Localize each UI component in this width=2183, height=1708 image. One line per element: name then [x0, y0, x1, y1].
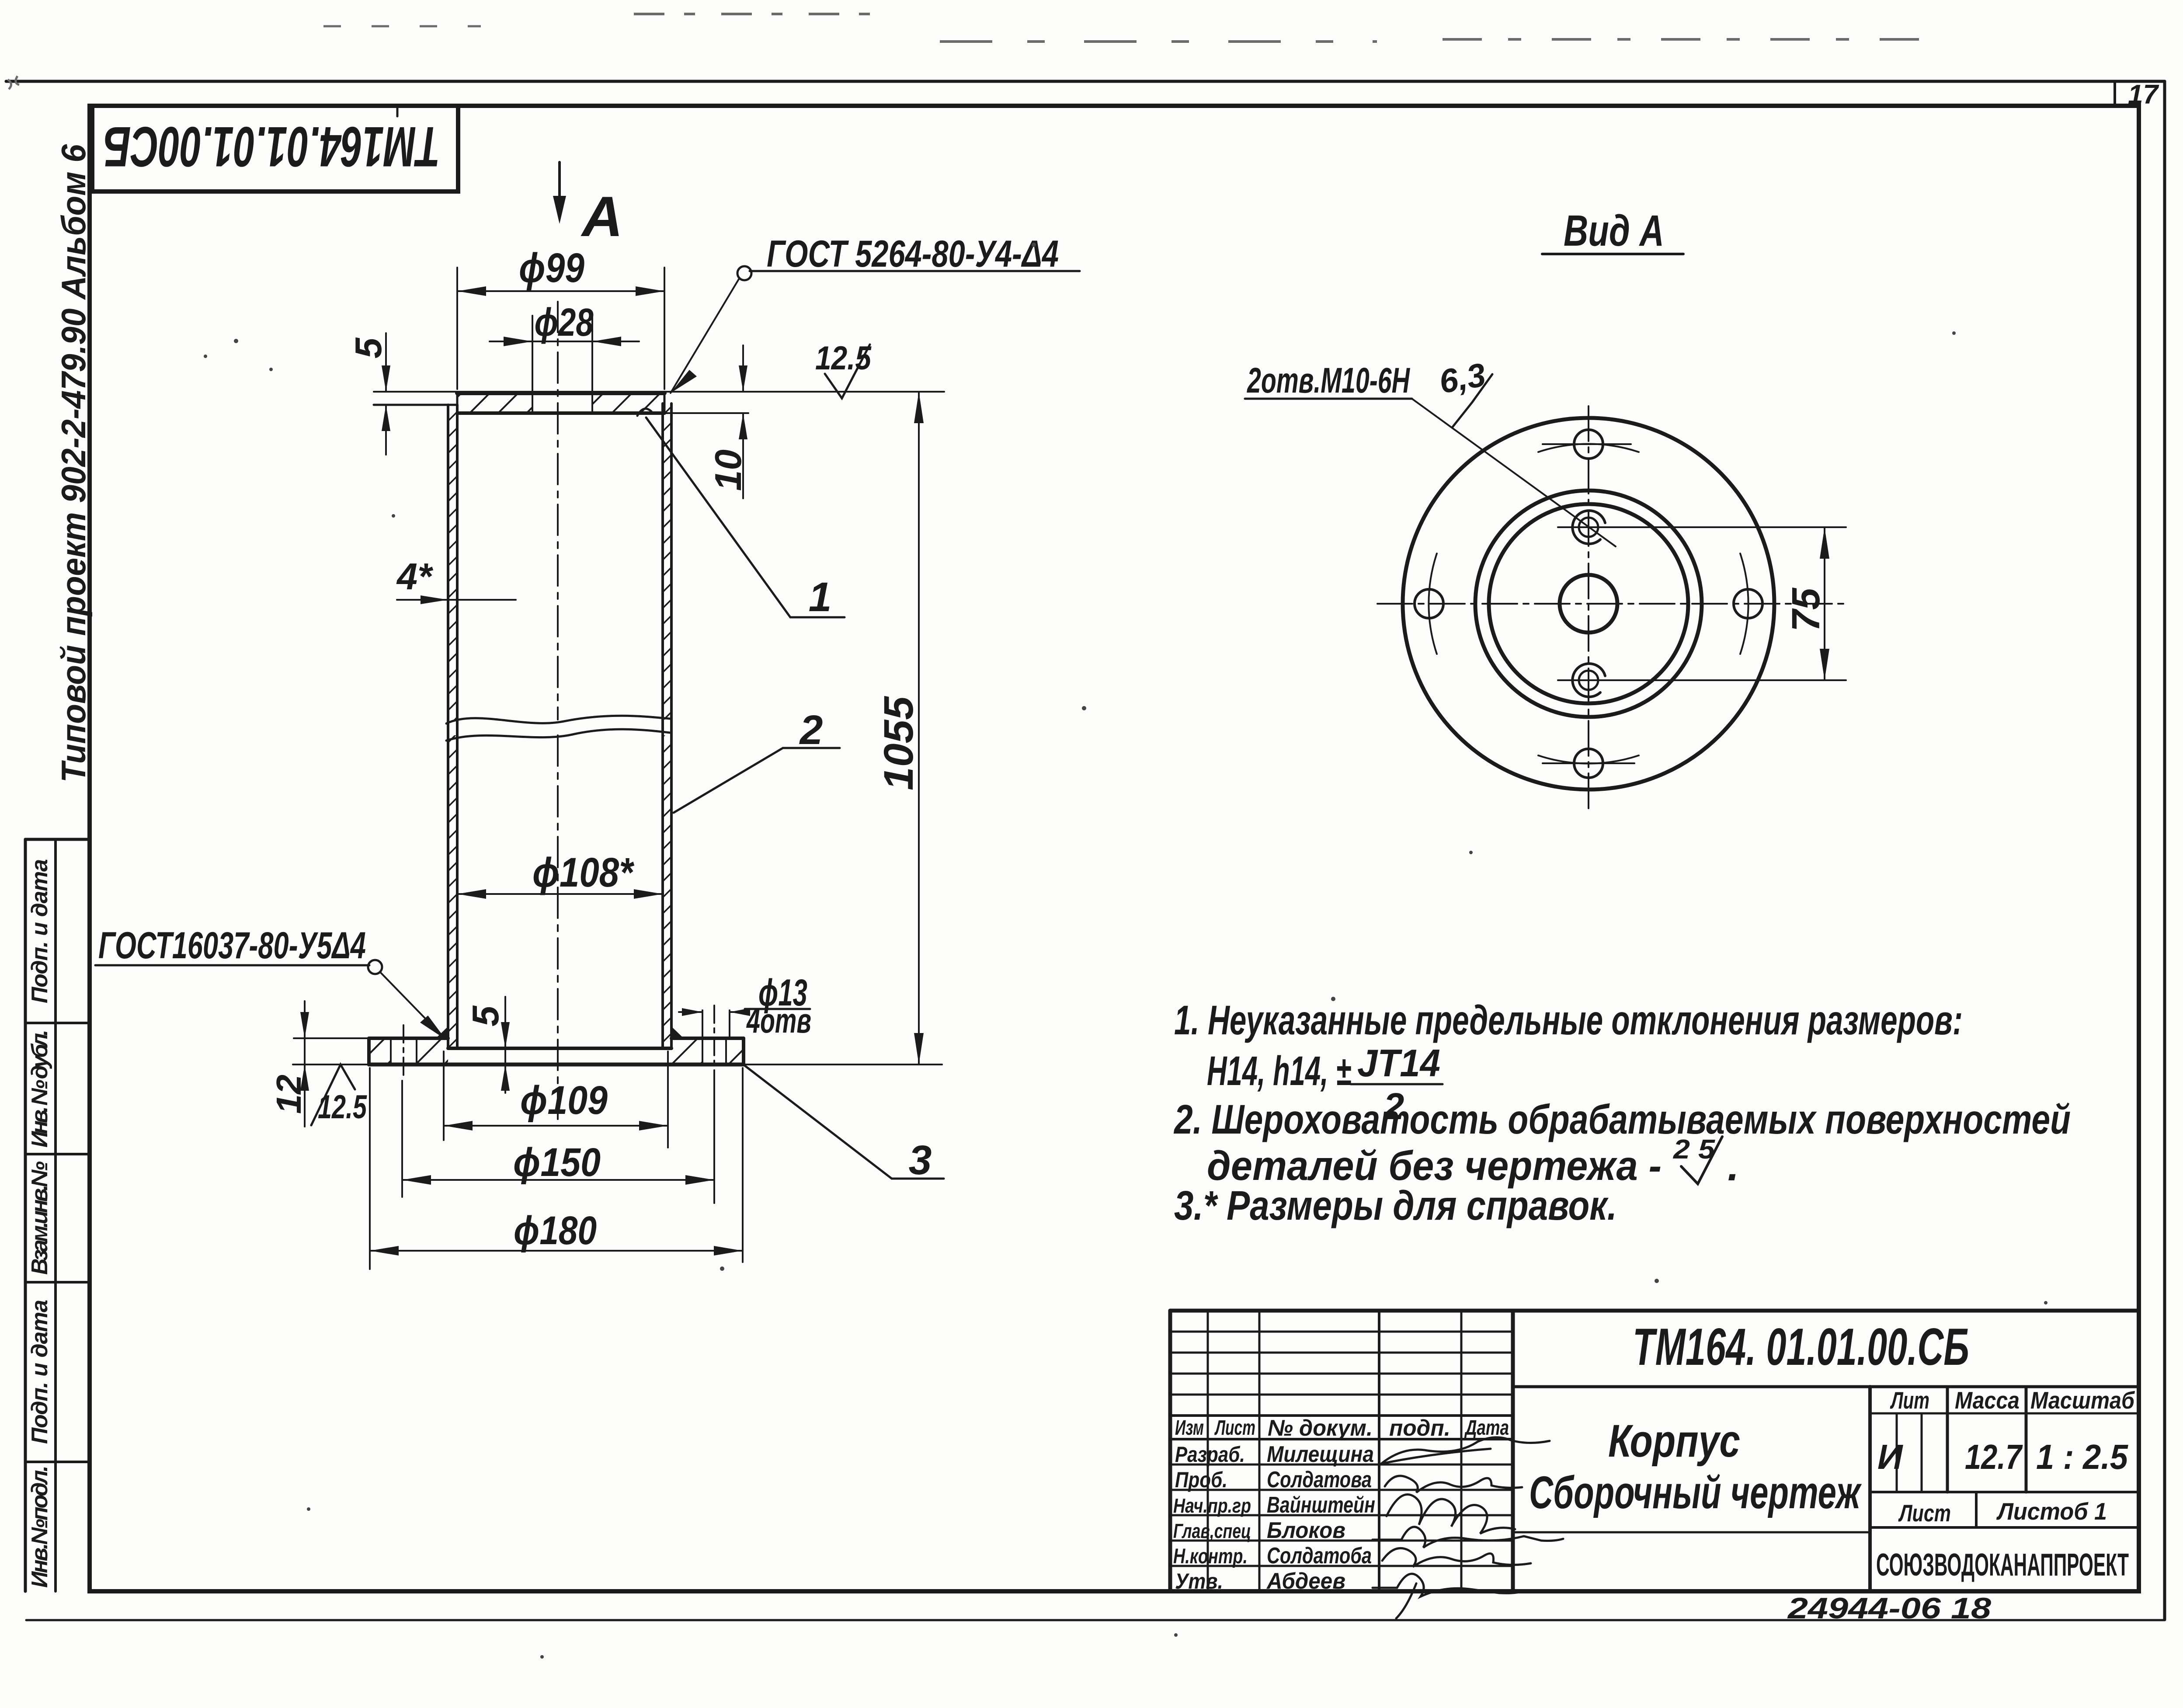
svg-text:подп.: подп.	[1389, 1416, 1450, 1441]
dim10 upper line	[742, 345, 744, 392]
flange bolt hole right centerline	[713, 1005, 715, 1176]
tapped hole top thread arc	[1572, 511, 1605, 544]
title block column podp-data divider	[1460, 1311, 1463, 1591]
artifact mark left edge	[8, 76, 19, 89]
dia13 dimension line left	[679, 1011, 702, 1013]
svg-text:Глав,спец: Глав,спец	[1173, 1520, 1251, 1542]
dia28 extension line right	[591, 316, 593, 392]
title block bottom border	[1170, 1590, 2139, 1593]
arrowhead dia28 left	[504, 337, 532, 346]
gost5264 leader line	[671, 278, 739, 393]
boss inner circle	[1489, 504, 1688, 703]
svg-text:1 : 2.5: 1 : 2.5	[2036, 1437, 2128, 1476]
arrowhead dim1055 up	[914, 392, 924, 423]
arrowhead dia150 left	[402, 1175, 431, 1185]
signatures	[1373, 1437, 1563, 1618]
note roughness check	[1681, 1137, 1722, 1184]
svg-text:1. Неуказанные предельные от: 1. Неуказанные предельные отклонения раз…	[1174, 997, 1963, 1044]
signature razrab	[1381, 1437, 1550, 1464]
dim12 line	[304, 1001, 306, 1127]
bolt hole bottom crossline	[1543, 762, 1634, 764]
boss outer circle	[1475, 490, 1702, 717]
signature utv	[1373, 1574, 1526, 1618]
cap top edge	[457, 391, 664, 395]
dim75 extension line bottom	[1558, 679, 1846, 681]
title block lit table left divider	[1868, 1387, 1872, 1591]
flange bottom extension line right	[744, 1064, 942, 1065]
right wall inner line	[661, 404, 664, 1048]
bolt circle arc top	[1538, 444, 1639, 452]
dim10 lower line	[742, 413, 744, 498]
flange bottom extension line left	[293, 1064, 369, 1065]
center hole circle	[1560, 575, 1617, 633]
svg-text:Вид А: Вид А	[1564, 206, 1664, 255]
dia109 dimension line	[444, 1125, 668, 1127]
sheet outer bottom border line	[26, 1619, 2165, 1621]
bolt hole top crossline	[1543, 443, 1631, 445]
flange left edge	[367, 1038, 371, 1064]
title block lit sub divider 2	[1921, 1413, 1923, 1492]
flange hatch block 3	[671, 1038, 702, 1064]
arrowhead dia108 left	[457, 889, 486, 899]
svg-text:Подп. и дата: Подп. и дата	[27, 859, 52, 1003]
dia13 extension line right	[729, 1010, 730, 1037]
dim1055 line	[918, 392, 920, 1064]
vertical centerline	[1588, 406, 1589, 809]
arrowhead dia13 left	[682, 1008, 702, 1016]
svg-text:3: 3	[909, 1137, 932, 1183]
weld curl at cap right	[637, 409, 651, 416]
dia99 extension line left	[456, 268, 458, 389]
dia109 extension line left	[443, 1051, 445, 1140]
svg-text:5: 5	[465, 1005, 507, 1026]
svg-text:10: 10	[708, 449, 749, 491]
svg-text:Масса: Масса	[1955, 1387, 2020, 1414]
leader 2otv underline	[1245, 398, 1412, 400]
svg-text:Вайнштейн: Вайнштейн	[1267, 1492, 1375, 1518]
callout 1 leader	[646, 417, 845, 617]
gost16037 underline	[95, 964, 369, 967]
arrowhead dia28 right	[592, 337, 621, 346]
svg-text:Лист: Лист	[1214, 1416, 1255, 1440]
svg-text:12: 12	[269, 1075, 308, 1114]
svg-text:6,3: 6,3	[1436, 356, 1488, 401]
svg-text:Корпус: Корпус	[1608, 1416, 1740, 1467]
flange hatch block 4	[726, 1038, 744, 1064]
svg-text:ТМ164.01.01.00СБ: ТМ164.01.01.00СБ	[104, 115, 440, 179]
title block header top line	[1170, 1414, 1513, 1417]
svg-text:Абдеев: Абдеев	[1266, 1569, 1345, 1594]
svg-text:ϕ28: ϕ28	[535, 301, 594, 344]
title block list row bottom line	[1870, 1526, 2139, 1529]
svg-text:3.* Размеры для справок.: 3.* Размеры для справок.	[1174, 1183, 1617, 1229]
svg-text:Типовой проект 902-2-479.90: Типовой проект 902-2-479.90 Альбом 6	[54, 144, 93, 783]
title block name row line 3	[1170, 1514, 1513, 1517]
stamp box tick	[396, 106, 399, 116]
signature nkontr	[1382, 1548, 1531, 1567]
title block small row line 2	[1170, 1352, 1513, 1354]
gost5264 leader underline	[750, 270, 1080, 272]
signature nachprgr	[1387, 1495, 1515, 1534]
cap bottom extension line right	[664, 412, 748, 414]
left column cell border 3	[25, 1153, 90, 1155]
artifact dashes top 1	[634, 13, 879, 15]
break wavy line lower	[446, 729, 670, 741]
svg-text:Нач.пр.гр: Нач.пр.гр	[1173, 1494, 1251, 1517]
title block column izm-list divider	[1207, 1311, 1209, 1591]
roughness 12.5 check top	[825, 344, 870, 398]
svg-text:12.5: 12.5	[815, 340, 872, 377]
left column cell border 2	[25, 1022, 90, 1024]
left wall hatch upper	[448, 405, 457, 720]
svg-text:Н.контр.: Н.контр.	[1173, 1545, 1248, 1568]
title block left border	[1168, 1311, 1172, 1591]
sheet outer top border line	[6, 80, 2165, 83]
arrowhead dia13 right	[730, 1008, 750, 1016]
svg-text:Сборочный чертеж: Сборочный чертеж	[1529, 1467, 1862, 1518]
left column cell border 1	[25, 838, 90, 841]
arrowhead dim1055 down	[914, 1033, 924, 1064]
svg-text:4отв: 4отв	[746, 1001, 811, 1040]
weld fillet right	[671, 1026, 684, 1038]
roughness 6.3 check	[1452, 374, 1492, 428]
flange right edge	[742, 1038, 745, 1064]
title block lit-massa divider	[1946, 1387, 1949, 1492]
dim5 top upper line	[385, 333, 387, 392]
title block column ndokum-podp divider	[1378, 1311, 1380, 1591]
svg-text:12.7: 12.7	[1965, 1437, 2023, 1476]
page number cell divider	[2113, 83, 2116, 106]
tapped hole bottom thread arc	[1572, 664, 1605, 697]
flange outer circle	[1403, 418, 1774, 790]
right wall hatch upper	[663, 404, 671, 720]
dia150 extension line right	[713, 1081, 715, 1203]
arrowhead dim10 down	[739, 365, 747, 392]
arrowhead dim12 up	[300, 1064, 309, 1091]
arrowhead dim5bot up	[501, 1064, 510, 1091]
right wall hatch lower	[663, 735, 671, 1048]
svg-text:СОЮЗВОДОКАНАППРОЕКТ: СОЮЗВОДОКАНАППРОЕКТ	[1876, 1548, 2129, 1583]
svg-text:Масштаб: Масштаб	[2030, 1387, 2135, 1414]
left wall hatch lower	[448, 735, 457, 1048]
svg-text:Разраб.: Разраб.	[1175, 1442, 1245, 1467]
artifact dashes top 2	[940, 40, 1377, 43]
arrowhead dia108 right	[634, 889, 663, 899]
title block big cell left divider	[1511, 1311, 1515, 1591]
svg-text:Блоков: Блоков	[1267, 1518, 1345, 1543]
signature glavspec	[1373, 1527, 1563, 1548]
svg-text:№ докум.: № докум.	[1268, 1416, 1373, 1441]
title block name row line 5	[1170, 1565, 1513, 1567]
dia108 dimension line	[457, 893, 663, 895]
dia99 extension line right	[664, 268, 665, 389]
flange bolt hole left centerline	[403, 1025, 404, 1079]
left wall outer line	[447, 405, 449, 1048]
leader 2otv line	[1412, 399, 1616, 546]
arrowhead A view	[553, 196, 566, 224]
dia180 extension line right	[742, 1068, 744, 1262]
svg-text:12.5: 12.5	[318, 1089, 367, 1126]
cap hatched right band	[592, 392, 664, 413]
svg-text:Подп. и дата: Подп. и дата	[27, 1300, 52, 1444]
title block name row line 2	[1170, 1489, 1513, 1491]
flange bolt hole left edge a	[390, 1038, 392, 1064]
flange bottom line	[369, 1063, 744, 1067]
flange bolt hole left edge b	[416, 1038, 417, 1064]
title block list row top line	[1870, 1491, 2139, 1493]
arrowhead gost16037	[420, 1016, 446, 1040]
top-left stamp box	[92, 106, 458, 191]
arrowhead dia109 right	[639, 1121, 668, 1131]
arrowhead gost5264	[671, 370, 697, 393]
flange hatch block 2	[417, 1038, 448, 1064]
dia13 extension line left	[702, 1010, 703, 1037]
arrowhead dim5bot down	[501, 1022, 510, 1048]
svg-text:Изм: Изм	[1175, 1416, 1204, 1440]
title block small row line 3	[1170, 1373, 1513, 1375]
svg-text:Утв.: Утв.	[1175, 1569, 1223, 1593]
svg-text:17: 17	[2128, 80, 2159, 110]
svg-text:75: 75	[1784, 587, 1828, 632]
arrowhead dia109 left	[444, 1121, 473, 1131]
title block name row line 4	[1170, 1540, 1513, 1542]
bolt hole left	[1415, 589, 1443, 618]
flange bolt hole right edge a	[702, 1038, 703, 1064]
wall top line left	[374, 404, 457, 406]
bolt circle arc left	[1429, 553, 1437, 654]
svg-text:1055: 1055	[876, 696, 922, 790]
svg-text:ϕ109: ϕ109	[520, 1078, 608, 1123]
arrowhead dim10 up	[739, 413, 747, 439]
svg-text:Лист: Лист	[1898, 1499, 1951, 1527]
title block name row line 1	[1170, 1464, 1513, 1466]
svg-text:ϕ180: ϕ180	[514, 1208, 597, 1253]
svg-text:Дата: Дата	[1464, 1416, 1509, 1440]
left column outer line	[24, 839, 27, 1591]
roughness 12.5 bottom mark	[311, 1064, 355, 1125]
svg-text:Инв. № дубл.: Инв. № дубл.	[27, 1030, 52, 1148]
svg-text:5: 5	[348, 337, 389, 358]
gost5264 leader circle	[737, 266, 751, 280]
arrowhead dia180 right	[714, 1246, 743, 1256]
title block top border	[1170, 1309, 2139, 1313]
tube centerline	[557, 302, 559, 1119]
svg-text:JT14: JT14	[1357, 1041, 1440, 1085]
cap left edge	[456, 392, 459, 413]
dim75 dimension line	[1824, 527, 1825, 680]
title block header bottom line	[1170, 1438, 1513, 1440]
svg-text:2. Шероховатость обрабатываем: 2. Шероховатость обрабатываемых поверхно…	[1173, 1096, 2071, 1143]
title block small row line 4	[1170, 1394, 1513, 1396]
svg-text:ϕ150: ϕ150	[513, 1140, 601, 1185]
svg-text:Солдатоба: Солдатоба	[1267, 1543, 1372, 1569]
svg-text:ГОСТ16037-80-У5Δ4: ГОСТ16037-80-У5Δ4	[98, 925, 366, 967]
dia13 dimension line right	[730, 1011, 748, 1013]
dim4 line	[397, 599, 516, 601]
bolt circle arc bottom	[1538, 755, 1639, 764]
svg-text:Инв.№подл.: Инв.№подл.	[27, 1465, 52, 1588]
dia180 dimension line	[370, 1250, 743, 1252]
svg-text:ϕ108*: ϕ108*	[532, 849, 634, 896]
dia150 extension line left	[401, 1081, 403, 1197]
svg-text:Листоб 1: Листоб 1	[1996, 1498, 2107, 1525]
svg-text:Милещина: Милещина	[1267, 1442, 1374, 1467]
view arrow A line	[558, 162, 561, 216]
arrowhead dim4 right	[421, 595, 448, 604]
arrowhead dia180 left	[370, 1246, 399, 1256]
arrowhead dim75 down	[1820, 649, 1829, 680]
title block lit sub divider 1	[1896, 1413, 1898, 1492]
cap right edge	[664, 392, 666, 413]
title block column list-ndokum divider	[1258, 1311, 1261, 1591]
callout 2 leader	[674, 748, 840, 813]
svg-text:4*: 4*	[396, 556, 434, 598]
horizontal centerline	[1377, 603, 1846, 605]
note fraction bar	[1351, 1083, 1443, 1085]
arrowhead dia150 right	[685, 1175, 714, 1185]
bolt hole bottom	[1574, 749, 1603, 778]
arrowhead dim75 up	[1820, 527, 1829, 559]
svg-text:ГОСТ 5264-80-У4-Δ4: ГОСТ 5264-80-У4-Δ4	[767, 233, 1059, 275]
tapped hole top inner circle	[1579, 518, 1598, 537]
cap bottom edge	[457, 411, 664, 415]
dim75 extension line top	[1558, 526, 1846, 528]
left column cell border 5	[25, 1461, 90, 1463]
tapped hole bottom inner circle	[1579, 671, 1598, 690]
weld fillet left	[436, 1026, 448, 1038]
tube bottom face line	[448, 1047, 671, 1050]
svg-text:2отв.М10-6Н: 2отв.М10-6Н	[1247, 361, 1411, 400]
view A title underline	[1542, 253, 1683, 255]
title block massa-masshtab divider	[2025, 1387, 2028, 1492]
left wall inner line	[456, 405, 459, 1048]
arrowhead dim5top up	[382, 405, 390, 431]
gost16037 leader line	[380, 972, 443, 1037]
artifact dashes top 3	[1443, 38, 1932, 41]
title block list-listov divider	[1975, 1492, 1978, 1527]
bolt circle arc right	[1740, 553, 1748, 654]
arrowhead dim5top down	[382, 365, 390, 392]
svg-text:Проб.: Проб.	[1175, 1468, 1227, 1492]
signature prob	[1385, 1476, 1522, 1492]
left column divider line	[54, 839, 57, 1591]
svg-text:ТМ164. 01.01.00.СБ: ТМ164. 01.01.00.СБ	[1633, 1318, 1969, 1376]
arrowhead dia99 right	[636, 286, 664, 296]
right wall outer line	[670, 404, 673, 1048]
title block line under designation	[1513, 1385, 2139, 1388]
dia180 extension line left	[369, 1068, 371, 1269]
dim5 top lower line	[385, 405, 387, 455]
artifact dashes top 4	[323, 25, 481, 28]
flange top extension line left	[294, 1037, 369, 1039]
cap hole right edge	[591, 392, 593, 413]
cap hole left edge	[532, 392, 533, 413]
svg-text:Взам.инв.№: Взам.инв.№	[27, 1161, 52, 1275]
dia28 extension line left	[532, 316, 533, 392]
gost16037 leader circle	[368, 960, 382, 974]
break wavy line upper	[446, 716, 670, 724]
svg-text:24944-06 18: 24944-06 18	[1787, 1592, 1992, 1625]
dia13 fraction bar	[745, 1008, 810, 1010]
dia109 extension line right	[667, 1051, 669, 1148]
callout 3 leader	[744, 1065, 944, 1179]
title block name cell bottom line	[1513, 1531, 1870, 1534]
dia28 dimension line	[490, 341, 639, 342]
svg-text:А: А	[581, 184, 623, 248]
dim5 bottom line	[504, 997, 506, 1093]
svg-text:Солдатова: Солдатова	[1267, 1467, 1372, 1492]
flange top line left	[369, 1037, 448, 1040]
svg-text:1: 1	[809, 574, 832, 620]
svg-text:Н14, h14, ±: Н14, h14, ±	[1207, 1048, 1351, 1094]
title block small row line 1	[1170, 1331, 1513, 1333]
bolt hole top	[1574, 430, 1603, 459]
svg-text:Лит: Лит	[1890, 1387, 1929, 1414]
arrowhead dia99 left	[457, 286, 486, 296]
left column cell border 4	[25, 1281, 90, 1284]
specks	[1082, 706, 1086, 710]
flange top line right	[671, 1037, 744, 1040]
flange bolt hole right edge b	[725, 1038, 727, 1064]
svg-text:.: .	[1728, 1143, 1739, 1190]
svg-text:ϕ99: ϕ99	[519, 245, 584, 291]
title block lit header underline	[1870, 1412, 2139, 1415]
sheet outer right border line	[2163, 81, 2166, 1620]
svg-text:И: И	[1877, 1437, 1903, 1476]
arrowhead dim12 down	[300, 1012, 309, 1038]
cap hatched left band	[457, 392, 532, 413]
top face extension line	[374, 391, 944, 393]
dia150 dimension line	[402, 1179, 714, 1181]
bolt hole right	[1734, 589, 1762, 618]
flange hatch block 1	[369, 1038, 391, 1064]
svg-text:2: 2	[799, 707, 823, 753]
dia99 dimension line	[457, 290, 664, 292]
